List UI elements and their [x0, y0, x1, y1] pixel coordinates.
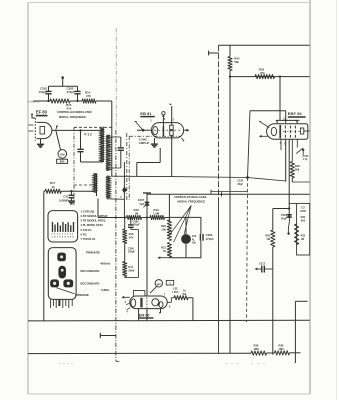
- svg-text:1M2: 1M2: [254, 347, 260, 351]
- svg-text:450kHz: 450kHz: [100, 262, 111, 266]
- EM80 pin numbers: [125, 292, 171, 315]
- annotation controlled modulated: [57, 110, 92, 119]
- trimmer C315: [296, 139, 304, 155]
- svg-text:0,05MF: 0,05MF: [59, 198, 68, 202]
- svg-text:1: 1: [146, 292, 148, 295]
- EM80 eye: [152, 299, 163, 308]
- resistor R36: [275, 351, 290, 355]
- connector pins: [51, 299, 73, 308]
- wire C310 tail: [287, 218, 289, 235]
- label C31 0.1MF: [59, 195, 69, 203]
- svg-text:EB 91: EB 91: [140, 111, 152, 116]
- shield box dashed F12: [74, 127, 127, 206]
- wire bus V2: [229, 71, 231, 354]
- meter GM: [58, 150, 67, 159]
- EBF80 grids: [285, 126, 295, 138]
- tube EBF80 envelope: [267, 124, 308, 140]
- bottom page border: [28, 393, 310, 395]
- svg-text:7: 7: [164, 293, 166, 296]
- resistor R24: [228, 45, 232, 70]
- EM80 bar: [140, 298, 142, 308]
- EB91 grid arrow: [134, 121, 143, 130]
- wire EB91 return: [137, 135, 172, 177]
- svg-text:PRIMARE: PRIMARE: [75, 293, 89, 297]
- EM80 pin ticks: [126, 303, 131, 309]
- EM80 grid dashed: [146, 298, 148, 308]
- capacitor C304 primary: [77, 129, 83, 162]
- svg-text:7 TOF30 O1: 7 TOF30 O1: [81, 237, 96, 241]
- EBF80 diode lead 1: [258, 121, 269, 128]
- left margin scribble: [28, 99, 39, 103]
- EBF80 axis dashed: [279, 131, 300, 133]
- svg-text:gm: gm: [157, 282, 162, 286]
- svg-text:56k: 56k: [234, 60, 239, 64]
- svg-text:27k: 27k: [260, 71, 265, 75]
- EBF80 anode out: [304, 130, 310, 132]
- label C307 5pF: [138, 198, 145, 206]
- label EM 80: [139, 313, 154, 318]
- EB91 pin numbers: [150, 118, 184, 143]
- label R14 470: [85, 91, 91, 99]
- ground EB91: [151, 144, 158, 147]
- EF80 input ticks: [29, 125, 34, 131]
- terminal arrow top: [209, 51, 219, 56]
- EB91 pin3 tick: [181, 138, 184, 141]
- box arrow: [157, 256, 169, 259]
- svg-text:120pF: 120pF: [133, 224, 141, 227]
- label C318: [237, 180, 243, 186]
- wire EBF feed2: [250, 111, 286, 121]
- svg-text:270pF: 270pF: [67, 90, 76, 94]
- label pot: [192, 235, 197, 244]
- resistor R19: [150, 215, 165, 219]
- resistor R30: [255, 75, 275, 79]
- svg-text:CENTRALES REGLAGES: CENTRALES REGLAGES: [174, 195, 207, 199]
- label 5.8Mc: [101, 288, 110, 292]
- wire top rail: [219, 44, 310, 46]
- resistor R16b: [123, 229, 127, 244]
- svg-text:4 PL MODE OF30: 4 PL MODE OF30: [81, 223, 104, 227]
- wire EBF top bus: [276, 119, 300, 124]
- top page border: [28, 2, 310, 4]
- wire R17 line: [44, 190, 94, 192]
- svg-text:470pF: 470pF: [206, 237, 214, 241]
- label C317: [259, 262, 266, 265]
- resistor R20: [167, 220, 171, 241]
- resistor R32: [271, 230, 275, 247]
- faint dots row: [60, 363, 265, 364]
- svg-text:4: 4: [126, 310, 128, 313]
- wire anode corner: [273, 207, 291, 209]
- EBF80 bar: [279, 125, 281, 138]
- partition dash line: [129, 136, 181, 200]
- svg-text:1: 1: [150, 120, 152, 123]
- capacitor C310: [287, 215, 292, 218]
- resistor R21: [167, 243, 171, 258]
- tube EF80 envelope: [37, 122, 52, 138]
- wire EBF pin2 down: [285, 139, 287, 181]
- EBF80 cathode ellipse: [271, 127, 276, 135]
- terminal stub: [100, 333, 115, 338]
- label C310 50pF: [281, 213, 288, 221]
- svg-text:1000: 1000: [300, 209, 306, 213]
- coil F12 secondary: [107, 135, 110, 171]
- svg-text:5,8Mc: 5,8Mc: [101, 288, 110, 292]
- socket right: [63, 279, 73, 287]
- svg-text:200k: 200k: [128, 268, 134, 272]
- label 5.7MC amplif: [139, 138, 150, 146]
- label R17 1k: [50, 181, 56, 189]
- wire main vertical drop: [111, 101, 113, 176]
- label primary 1: [86, 251, 100, 255]
- wire EBF pin3 down: [288, 139, 290, 215]
- EBF80 anode square: [300, 128, 303, 134]
- wire box feed: [168, 194, 170, 217]
- EF80 cathode to ground: [40, 139, 42, 144]
- knob top: [57, 253, 66, 262]
- svg-text:C310: C310: [281, 213, 288, 217]
- wire EBF pin7 down: [280, 139, 282, 150]
- label 450kHz: [100, 262, 111, 266]
- svg-text:R29: R29: [295, 164, 300, 168]
- wire EBF feed: [279, 75, 281, 120]
- ground C31: [68, 201, 75, 204]
- EM80 staple: [133, 291, 145, 296]
- label R18 1M: [134, 208, 140, 216]
- resistor R16: [82, 99, 96, 103]
- pointer line primary: [57, 288, 75, 294]
- tube EM80 envelope: [130, 296, 167, 309]
- svg-text:1M2: 1M2: [279, 347, 285, 351]
- svg-text:47k: 47k: [67, 106, 72, 110]
- svg-text:2: 2: [120, 196, 122, 199]
- svg-text:R32: R32: [265, 233, 270, 237]
- svg-text:5pF: 5pF: [140, 202, 145, 206]
- svg-text:AMPLIF: AMPLIF: [139, 141, 150, 145]
- label right of eye: [172, 288, 178, 295]
- capacitor C302: [45, 86, 51, 101]
- wire F12 bottom: [81, 161, 103, 163]
- label R17b 200k: [128, 265, 134, 273]
- wire cap branch top: [49, 85, 78, 87]
- label R20 15k: [161, 224, 166, 232]
- far-right faint page shadow: [336, 0, 338, 400]
- EF80 anode rect: [40, 126, 45, 134]
- svg-text:EM 80: EM 80: [139, 313, 150, 317]
- svg-text:9: 9: [169, 306, 171, 309]
- svg-text:1M: 1M: [266, 237, 270, 241]
- wire det out: [98, 199, 169, 219]
- wire to meter GM: [56, 131, 61, 150]
- dial scale box: [48, 211, 78, 242]
- wire grid feed vertical: [146, 193, 148, 297]
- svg-text:3 RF MODUL FREQ: 3 RF MODUL FREQ: [81, 219, 107, 223]
- meter GM box: [57, 159, 68, 163]
- label C306a: [133, 221, 141, 227]
- resistor R29: [290, 139, 294, 182]
- resistor R26: [174, 296, 188, 300]
- resistor R18: [127, 215, 142, 219]
- svg-text:470: 470: [86, 94, 91, 98]
- wire rail B+: [143, 192, 310, 196]
- svg-text:GM: GM: [60, 152, 65, 156]
- label R33: [301, 235, 306, 242]
- svg-text:45k: 45k: [182, 292, 187, 296]
- capacitor C317: [255, 266, 273, 273]
- label R19 1.2M: [153, 208, 160, 216]
- wire corner right: [295, 301, 307, 363]
- label EB 91: [140, 111, 155, 117]
- EB91 cathode ellipse: [153, 127, 158, 135]
- svg-text:MODUL. FREQUENCE: MODUL. FREQUENCE: [59, 115, 86, 119]
- EM80 pins down: [139, 309, 161, 321]
- svg-text:15k: 15k: [162, 227, 167, 231]
- legend text list: [81, 210, 109, 241]
- wire secondary link: [107, 196, 124, 199]
- wire AVC tap: [122, 162, 127, 218]
- label EBF 80: [288, 112, 306, 117]
- EB91 axis dashed: [154, 129, 181, 131]
- svg-text:R35: R35: [254, 343, 259, 347]
- annotation centrales reglages: [174, 195, 207, 204]
- svg-text:C2: C2: [301, 206, 305, 210]
- svg-text:R20: R20: [161, 224, 166, 228]
- label R26: [182, 288, 187, 295]
- EB91 diode plates: [170, 125, 174, 135]
- EBF80 diode lead 2: [259, 135, 268, 138]
- svg-text:C317: C317: [259, 262, 266, 265]
- label EF 80: [36, 110, 48, 116]
- svg-text:4,7p: 4,7p: [303, 158, 308, 161]
- svg-text:880: 880: [60, 160, 65, 164]
- meter M: [155, 280, 162, 287]
- wire EF80 plate: [52, 129, 101, 131]
- wire EB91 grid: [137, 129, 151, 132]
- label C306 470pF: [206, 233, 214, 241]
- wire left drop: [43, 191, 45, 320]
- svg-text:5k: 5k: [163, 249, 166, 253]
- label secondary 2: [80, 281, 99, 285]
- label R30 27k: [259, 67, 265, 75]
- box R31: [289, 203, 310, 255]
- capacitor C306a: [128, 216, 134, 229]
- wire R32 branch: [272, 209, 274, 355]
- EB91 plate lead up: [169, 104, 172, 126]
- EBF80 pin numbers: [276, 117, 298, 145]
- EM80 left arrow: [121, 296, 129, 299]
- resistor R15: [50, 99, 70, 103]
- capacitor C307: [143, 202, 149, 207]
- wire bus V1: [218, 45, 220, 353]
- label C302 100pF: [39, 86, 48, 94]
- svg-text:600: 600: [301, 218, 306, 222]
- svg-text:R36: R36: [279, 343, 284, 347]
- meter M box: [166, 280, 173, 285]
- ground EF80: [37, 144, 44, 147]
- svg-text:5 T30 K1: 5 T30 K1: [81, 228, 93, 232]
- svg-text:2: 2: [173, 118, 175, 121]
- wire branch box: [125, 229, 139, 277]
- label C315: [303, 155, 309, 161]
- svg-text:C307: C307: [138, 198, 145, 202]
- svg-text:R16: R16: [129, 232, 134, 236]
- svg-text:L05C: L05C: [172, 291, 178, 294]
- coil T2 primary: [93, 174, 96, 197]
- bus ground lower: [28, 319, 310, 322]
- svg-text:1,2M: 1,2M: [153, 212, 160, 216]
- svg-text:SECONDARE: SECONDARE: [80, 269, 99, 273]
- wire R29 out: [292, 181, 309, 183]
- svg-text:56k: 56k: [295, 168, 300, 172]
- label primary 2: [75, 293, 89, 297]
- EB91 plate bar: [162, 126, 164, 136]
- pot box: [169, 217, 201, 257]
- svg-text:F 1 2: F 1 2: [85, 132, 92, 136]
- node feed dot: [61, 76, 64, 86]
- label R32 1M: [265, 233, 270, 241]
- svg-text:1k: 1k: [183, 288, 186, 292]
- wire screen rail: [229, 75, 310, 77]
- label R16b 47k: [129, 232, 134, 240]
- resistor R35: [251, 351, 267, 355]
- svg-text:R21: R21: [161, 245, 166, 249]
- capacitor C306c: [200, 234, 203, 241]
- svg-text:MODUL FREQUENCE: MODUL FREQUENCE: [178, 200, 206, 204]
- label C306b: [128, 247, 136, 253]
- EB91 top cap: [162, 112, 165, 126]
- label C303 270pF: [67, 86, 76, 94]
- label R29: [295, 164, 300, 172]
- svg-text:1M: 1M: [135, 212, 140, 216]
- wire rail AVC: [111, 176, 286, 181]
- wire stub AGC: [211, 190, 248, 194]
- svg-text:R31: R31: [301, 215, 306, 219]
- knob capsule: [58, 266, 66, 279]
- svg-text:R17: R17: [128, 265, 133, 269]
- wire M diagonal: [150, 287, 157, 294]
- EF80 grid dashed: [31, 113, 35, 140]
- right page edge line: [309, 0, 311, 394]
- label R15 47k: [66, 103, 72, 111]
- label R36: [279, 343, 285, 351]
- EB91 cathode lead: [153, 138, 155, 144]
- svg-text:6 RC: 6 RC: [81, 232, 87, 236]
- svg-text:100pF: 100pF: [128, 250, 136, 253]
- label R21 5k: [161, 245, 166, 253]
- svg-text:EBF 80: EBF 80: [288, 112, 302, 116]
- resistor R33: [295, 224, 299, 245]
- bus heater line: [28, 352, 301, 355]
- svg-text:50pF: 50pF: [281, 217, 287, 221]
- svg-text:2: 2: [125, 301, 127, 304]
- label R35: [254, 343, 260, 351]
- resistor R17b: [123, 262, 127, 277]
- EF80 plate tick: [56, 125, 58, 130]
- svg-text:PRIMARE: PRIMARE: [86, 251, 100, 255]
- svg-text:10k: 10k: [192, 242, 197, 245]
- svg-text:5: 5: [72, 237, 74, 239]
- chain line tuning: [116, 28, 119, 361]
- socket left: [50, 279, 59, 287]
- wire R26 down: [188, 298, 193, 321]
- pointer fan: [169, 206, 191, 243]
- wire R16 branch: [124, 216, 126, 277]
- capacitor C31: [69, 190, 75, 201]
- label F12: [85, 132, 92, 136]
- svg-text:1k: 1k: [52, 185, 56, 189]
- label box R31: [300, 206, 306, 223]
- label secondary 1: [80, 269, 99, 273]
- svg-text:EF 80: EF 80: [36, 110, 48, 115]
- svg-text:C31: C31: [63, 195, 68, 199]
- tube EB91 envelope: [151, 123, 183, 138]
- capacitor C303: [74, 86, 80, 101]
- svg-text:5: 5: [164, 118, 166, 121]
- coil F12 primary: [100, 127, 103, 163]
- svg-text:1 COR (30): 1 COR (30): [81, 210, 95, 214]
- capacitor C305 secondary: [107, 137, 124, 168]
- label R24 56k: [234, 56, 240, 64]
- wire bus V3 dashed: [247, 111, 250, 322]
- resistor R17: [45, 189, 61, 193]
- wire EM80 out: [167, 298, 174, 303]
- left page edge line: [27, 3, 29, 395]
- potentiometer knob: [181, 217, 191, 257]
- svg-text:100pF: 100pF: [39, 90, 48, 94]
- svg-text:1M: 1M: [301, 238, 304, 241]
- wire main grid line: [33, 100, 112, 102]
- svg-text:SECONDARE: SECONDARE: [80, 281, 99, 285]
- svg-text:30pF: 30pF: [237, 183, 243, 186]
- svg-text:47k: 47k: [129, 235, 134, 239]
- coil T2 secondary: [107, 176, 110, 199]
- EM80 cathode ellipse: [131, 299, 136, 307]
- svg-text:CONTROLLES MODULATED: CONTROLLES MODULATED: [57, 110, 92, 114]
- connector box: [48, 248, 76, 300]
- EB91 output arrow: [184, 129, 190, 132]
